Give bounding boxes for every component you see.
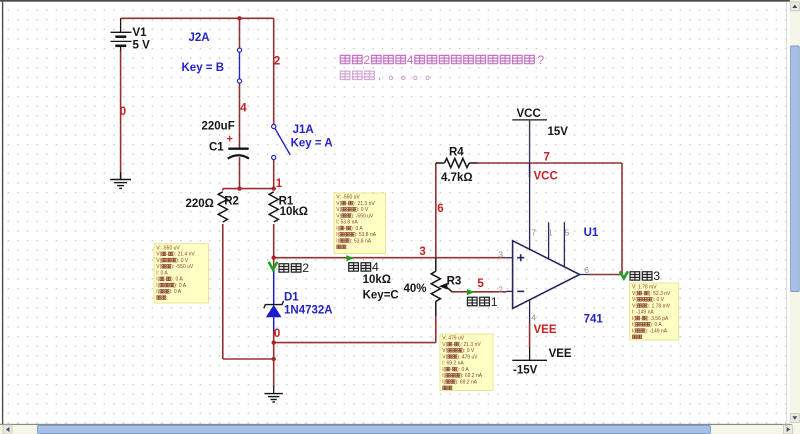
svg-text:I: 0 A: I: 0 A [156, 270, 168, 276]
svg-text:): 0 A: ): 0 A [351, 226, 363, 232]
svg-text:): 0 V: ): 0 V [356, 207, 369, 213]
svg-text:1: 1 [276, 178, 283, 190]
svg-text:): -550 uV: ): -550 uV [171, 264, 194, 270]
svg-text:R4: R4 [449, 147, 464, 159]
svg-text:V(: V( [442, 354, 447, 360]
svg-text:V(: V( [336, 213, 341, 219]
svg-text:2: 2 [302, 261, 309, 275]
svg-text:I: 53.8 nA: I: 53.8 nA [336, 220, 358, 226]
svg-text:220Ω: 220Ω [186, 198, 214, 210]
svg-text:I(: I( [156, 289, 159, 295]
svg-text:I(: I( [156, 283, 159, 289]
svg-text:VCC: VCC [534, 171, 558, 183]
svg-text:): 0 A: ): 0 A [650, 322, 662, 328]
svg-text:I(: I( [336, 226, 339, 232]
svg-text:I(: I( [336, 238, 339, 244]
svg-text:3: 3 [498, 250, 503, 260]
svg-text:7: 7 [531, 227, 536, 237]
svg-text:1: 1 [548, 227, 553, 237]
svg-text:10kΩ: 10kΩ [363, 274, 391, 286]
svg-text:+: + [227, 134, 233, 146]
svg-text:): 479 uV: ): 479 uV [457, 354, 478, 360]
svg-text:?: ? [537, 53, 544, 67]
svg-text:): 21.3 nV: ): 21.3 nV [459, 342, 481, 348]
svg-text:5: 5 [477, 278, 484, 290]
svg-text:4: 4 [531, 312, 536, 322]
svg-text:10kΩ: 10kΩ [280, 206, 308, 218]
svg-text:7: 7 [544, 152, 550, 164]
svg-text:D1: D1 [284, 291, 299, 303]
svg-text:V: -550 uV: V: -550 uV [336, 195, 360, 201]
svg-text:I(: I( [632, 328, 635, 334]
svg-text:V(: V( [632, 291, 637, 297]
svg-text:5 V: 5 V [133, 39, 151, 51]
svg-text:V1: V1 [133, 27, 148, 39]
svg-text:): 0 A: ): 0 A [457, 367, 469, 373]
svg-text:V(: V( [156, 258, 161, 264]
svg-text:V(: V( [442, 348, 447, 354]
svg-text:2: 2 [274, 55, 280, 67]
svg-text:VCC: VCC [517, 108, 541, 120]
svg-text:15V: 15V [548, 126, 569, 138]
svg-text:): -550 uV: ): -550 uV [351, 213, 374, 219]
svg-text:): 0 V: ): 0 V [176, 258, 189, 264]
svg-text:): 53.8 nA: ): 53.8 nA [354, 232, 376, 238]
svg-text:V: 1.78 mV: V: 1.78 mV [632, 285, 657, 291]
svg-text:Key = A: Key = A [291, 138, 333, 150]
svg-text:2: 2 [498, 284, 503, 294]
svg-text:I(: I( [442, 373, 445, 379]
svg-text:V: 479 uV: V: 479 uV [442, 336, 464, 342]
svg-text:): 52.3 nV: ): 52.3 nV [649, 291, 671, 297]
svg-text:): 69.2 nA: ): 69.2 nA [455, 379, 477, 385]
svg-text::: : [346, 245, 347, 251]
svg-text::: : [452, 386, 453, 392]
svg-text:): 69.2 nA: ): 69.2 nA [460, 373, 482, 379]
svg-text:V(: V( [156, 264, 161, 270]
svg-text::: : [642, 335, 643, 341]
svg-text:R2: R2 [224, 195, 239, 207]
svg-text:): 0 A: ): 0 A [169, 289, 181, 295]
svg-text:741: 741 [584, 313, 604, 325]
svg-text:R3: R3 [447, 275, 462, 287]
svg-text:0: 0 [274, 328, 280, 340]
svg-text:Key=C: Key=C [363, 289, 399, 301]
svg-text:V(: V( [336, 207, 341, 213]
svg-text:J1A: J1A [293, 124, 314, 136]
svg-text:3: 3 [419, 246, 425, 258]
svg-text:V(: V( [336, 201, 341, 207]
svg-text:): 1.78 mV: ): 1.78 mV [647, 303, 671, 309]
svg-text:VEE: VEE [534, 324, 557, 336]
svg-text:I(: I( [336, 232, 339, 238]
svg-text:6: 6 [437, 203, 443, 215]
svg-text:I(: I( [632, 316, 635, 322]
svg-text:V(: V( [632, 303, 637, 309]
svg-text:): 21.4 nV: ): 21.4 nV [173, 252, 195, 258]
svg-text:U1: U1 [584, 227, 599, 239]
svg-text:V(: V( [632, 297, 637, 303]
svg-text:C1: C1 [209, 142, 224, 154]
svg-text:): 0 V: ): 0 V [652, 297, 665, 303]
svg-text:V(: V( [156, 252, 161, 258]
svg-text:1: 1 [491, 295, 498, 309]
svg-text:J2A: J2A [189, 32, 210, 44]
svg-text:5: 5 [565, 227, 570, 237]
svg-text::: : [166, 295, 167, 301]
svg-text:0: 0 [120, 106, 126, 118]
svg-text:): 0 A: ): 0 A [171, 277, 183, 283]
svg-text:3: 3 [653, 269, 660, 283]
svg-text:): 21.3 nV: ): 21.3 nV [353, 201, 375, 207]
svg-text:I(: I( [442, 379, 445, 385]
svg-text:I: 69.2 nA: I: 69.2 nA [442, 361, 464, 367]
svg-text:1N4732A: 1N4732A [284, 305, 333, 317]
svg-text:40%: 40% [404, 283, 427, 295]
svg-text:VEE: VEE [549, 348, 572, 360]
svg-text:): 3.56 pA: ): 3.56 pA [647, 316, 669, 322]
svg-text:4: 4 [372, 260, 379, 274]
svg-text:I(: I( [442, 367, 445, 373]
svg-text:4: 4 [240, 103, 247, 115]
svg-text:): 0 A: ): 0 A [174, 283, 186, 289]
svg-text:4.7kΩ: 4.7kΩ [441, 172, 473, 184]
svg-text:V(: V( [442, 342, 447, 348]
svg-text:I: -149 nA: I: -149 nA [632, 310, 654, 316]
svg-text:4: 4 [407, 53, 414, 67]
svg-text:I(: I( [156, 277, 159, 283]
svg-text:6: 6 [584, 265, 589, 275]
svg-text:): 0 V: ): 0 V [462, 348, 475, 354]
svg-text:): 53.8 nA: ): 53.8 nA [349, 238, 371, 244]
svg-text:220uF: 220uF [202, 121, 235, 133]
svg-text:): -149 nA: ): -149 nA [645, 328, 668, 334]
svg-text:V: -550 uV: V: -550 uV [156, 245, 180, 251]
svg-text:Key = B: Key = B [182, 62, 225, 74]
svg-text:-15V: -15V [513, 364, 538, 376]
svg-text:I(: I( [632, 322, 635, 328]
svg-text:2: 2 [363, 53, 370, 67]
